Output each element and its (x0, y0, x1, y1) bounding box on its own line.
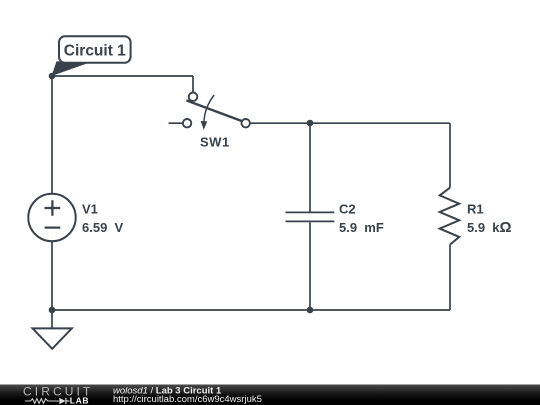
svg-text:http://circuitlab.com/c6w9c4ws: http://circuitlab.com/c6w9c4wsrjuk5 (113, 394, 262, 405)
bottom lead (309, 222, 311, 310)
svg-text:V1: V1 (82, 202, 98, 217)
top lead (309, 123, 311, 212)
svg-text:5.9 kΩ: 5.9 kΩ (467, 219, 512, 236)
source circle (28, 194, 75, 241)
footer CircuitLab logo (23, 385, 93, 405)
node junction dot bottom of capacitor (307, 307, 314, 314)
node A junction dot top-left (49, 73, 56, 80)
switch SW1 (169, 93, 250, 150)
wire right vertical lower lead of R1 (449, 245, 451, 310)
annotation flag "Circuit 1" (52, 36, 131, 76)
voltage source V1 (28, 76, 123, 310)
switch lever bar (186, 100, 241, 121)
switch left throw terminal (183, 119, 191, 127)
bottom lead (51, 241, 53, 310)
wire right vertical upper lead of R1 (449, 123, 451, 188)
switch right throw terminal (242, 119, 250, 127)
resistor R1 (440, 188, 512, 245)
top lead (51, 76, 53, 194)
capacitor C2 (286, 123, 384, 310)
switch actuation arrow (204, 95, 214, 122)
bottom plate (286, 220, 335, 222)
minus sign (45, 227, 61, 229)
switch left throw stub wire (169, 122, 183, 124)
plus sign (45, 200, 61, 216)
svg-text:Circuit 1: Circuit 1 (64, 43, 126, 60)
node junction dot top of capacitor (307, 120, 314, 127)
footer bar (0, 385, 540, 405)
svg-text:R1: R1 (467, 202, 484, 217)
wire switch top vertical lead (192, 76, 194, 92)
svg-text:6.59 V: 6.59 V (82, 220, 124, 235)
svg-text:5.9 mF: 5.9 mF (339, 220, 384, 235)
wire top horizontal from node A to switch lead (52, 75, 193, 77)
wire bottom horizontal (52, 309, 450, 311)
wire from switch right terminal to right corner (250, 122, 450, 124)
switch top pivot terminal (189, 93, 198, 102)
svg-text:SW1: SW1 (200, 135, 230, 150)
ground (33, 310, 72, 349)
footer title text (113, 385, 262, 405)
top plate (286, 211, 335, 213)
svg-text:C2: C2 (339, 202, 356, 217)
svg-text:LAB: LAB (70, 395, 90, 405)
node junction dot bottom-left (49, 307, 56, 314)
